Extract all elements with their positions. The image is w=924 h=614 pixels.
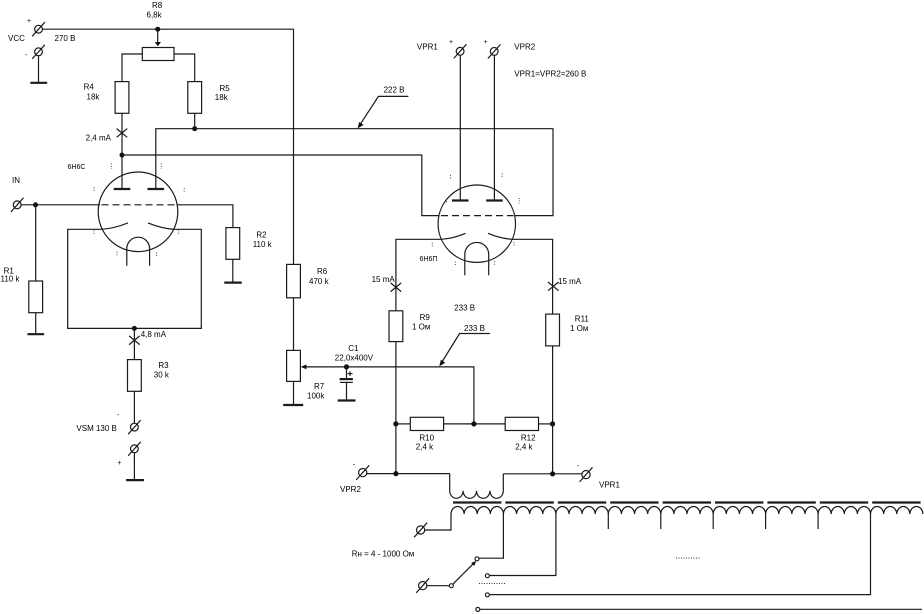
node primary left junction [393, 471, 398, 476]
wire VCC- to ground [38, 56, 40, 83]
tube V2 6N6P envelope [438, 185, 515, 262]
svg-text:R2: R2 [256, 230, 267, 239]
transformer T1 core [453, 501, 923, 503]
wire tap 2 to contact 2 [490, 514, 556, 576]
svg-text:VPR1: VPR1 [417, 43, 438, 52]
node VCC-R8 junction [155, 27, 160, 32]
resistor R3 [128, 360, 142, 392]
resistor R11 [546, 314, 560, 346]
switch contact 3 [485, 593, 489, 597]
svg-text:+: + [484, 39, 488, 46]
svg-text:R10: R10 [419, 434, 434, 443]
svg-text:1 Ом: 1 Ом [570, 324, 588, 333]
VCC - terminal [32, 45, 45, 59]
svg-text:110 k: 110 k [253, 240, 273, 249]
svg-text:270 В: 270 В [55, 34, 76, 43]
wire left column to primary [395, 424, 397, 474]
resistor R4 [115, 82, 129, 114]
tube V2 cathode a [441, 233, 465, 239]
node plate V1a junction [120, 153, 125, 158]
resistor R1 [29, 281, 43, 313]
wire R7 wiper 233V net [304, 367, 474, 424]
switch contact 1 [475, 557, 479, 561]
svg-text:R4: R4 [84, 83, 95, 92]
svg-text:IN: IN [12, 176, 20, 185]
tube V1 6N6S envelope [98, 172, 178, 252]
wire secondary left end to output [425, 514, 451, 530]
svg-text:30 k: 30 k [154, 370, 170, 379]
svg-text:15 mA: 15 mA [558, 277, 582, 286]
tube V1 heater [127, 237, 150, 266]
wire R1 to ground [35, 313, 37, 334]
tube V1 grid dashes [102, 204, 177, 206]
VPR2 terminal [488, 44, 501, 58]
wire VCC+ rail to R6 [42, 29, 293, 264]
probe X 15 mA right [548, 282, 559, 291]
VPR2 output terminal [356, 465, 369, 480]
wire R4 to plate V1a [121, 113, 123, 189]
capacitor C1 [340, 367, 353, 400]
svg-text:2,4 k: 2,4 k [515, 442, 533, 451]
svg-text:VCC: VCC [8, 34, 25, 43]
svg-text:+: + [27, 18, 31, 25]
output terminal top [414, 523, 427, 538]
tube V2 grid dashes [441, 215, 514, 217]
tube V1 plate a [114, 188, 131, 190]
wire tap stub 4 [660, 514, 662, 529]
svg-text:R5: R5 [220, 84, 231, 93]
wire contact 4 line [480, 608, 922, 610]
wire tap stub 3 [607, 514, 609, 529]
svg-text:100k: 100k [307, 391, 325, 400]
wire tap stub 6 [765, 514, 767, 529]
tube V1 cathode a [102, 223, 129, 229]
svg-text:18k: 18k [87, 93, 101, 102]
node primary right junction [550, 471, 555, 476]
resistor R5 [188, 82, 202, 114]
VCC + terminal [32, 22, 45, 36]
wire R11 to R12 [552, 346, 554, 424]
wire right column to primary [552, 424, 554, 474]
probe X 4,8 mA [129, 336, 140, 345]
node R5 222V junction [192, 126, 197, 131]
V2 pin marks [432, 173, 519, 265]
VPR1 output terminal [580, 467, 593, 482]
tube V2 plate b [486, 199, 503, 201]
svg-text:+: + [449, 39, 453, 46]
wire R7 to ground [293, 381, 295, 404]
svg-text:R7: R7 [314, 382, 325, 391]
svg-text:233 В: 233 В [454, 303, 475, 312]
node C1 junction [344, 364, 349, 369]
svg-text:Rн = 4 - 1000 Ом: Rн = 4 - 1000 Ом [352, 550, 415, 559]
wire cathode V2a to R9 [396, 239, 441, 310]
svg-text:2,4 mA: 2,4 mA [86, 134, 112, 143]
probe X 15 mA left [391, 283, 402, 292]
wire VPR2 to primary left [367, 473, 450, 475]
resistor R8 [142, 48, 174, 61]
ellipsis switch contacts [479, 583, 505, 585]
resistor R2 [226, 228, 240, 260]
222 V leader arrow [358, 96, 409, 128]
wire R8 wiper arrow [155, 29, 161, 46]
ellipsis taps [676, 557, 701, 559]
wire grid V1 to R2 [177, 205, 233, 228]
tube V1 plate b [148, 188, 165, 190]
wire R8 left to R4 [122, 54, 142, 82]
svg-text:+: + [118, 460, 122, 467]
wire R9 to R10 [395, 342, 397, 424]
wire VSM to ground [133, 453, 135, 480]
wire terminal to switch arm [427, 585, 449, 587]
svg-text:R11: R11 [575, 315, 590, 324]
resistor R9 [389, 311, 403, 342]
svg-text:470 k: 470 k [309, 277, 330, 286]
wire R6 to R7 [293, 298, 295, 351]
node IN-R1 junction [33, 202, 38, 207]
node R9-R10 junction [393, 421, 398, 426]
wire R9 to R10 stub [396, 423, 410, 425]
IN terminal [11, 198, 24, 212]
ground R7 [283, 404, 303, 406]
svg-text:2,4 k: 2,4 k [416, 442, 434, 451]
svg-text:4,8 mA: 4,8 mA [141, 330, 167, 339]
wire VPR1 to plate V2a [459, 55, 461, 200]
wire R8 right to R5 [174, 54, 195, 82]
wire primary right to VPR1 [503, 473, 582, 475]
ground C1 [338, 399, 356, 401]
wire cathode V2b to R11 [512, 239, 553, 314]
wire VPR2 to plate V2b [493, 55, 495, 200]
wire R2 to ground [232, 259, 234, 282]
svg-text:VPR2: VPR2 [514, 43, 535, 52]
wire tap stub 7 [817, 514, 819, 529]
transformer T1 secondary winding [451, 507, 923, 514]
V1 pin marks [94, 164, 184, 257]
233 V leader arrow [439, 334, 490, 367]
tube V2 plate a [452, 199, 469, 201]
svg-text:R9: R9 [420, 313, 431, 322]
wire tap 8 to contact 3 [490, 514, 871, 595]
wire IN to grid V1 [21, 204, 100, 206]
svg-text:C1: C1 [348, 344, 359, 353]
ground VCC [30, 82, 47, 84]
resistor R6 [287, 264, 301, 297]
switch contact 2 [485, 574, 489, 578]
ground VSM [126, 479, 144, 481]
node cathode junction [132, 326, 137, 331]
svg-text:VPR2: VPR2 [340, 485, 361, 494]
svg-text:VSM 130 В: VSM 130 В [76, 424, 116, 433]
VSM + terminal [128, 442, 141, 456]
wire tap 1 to switch contact [479, 514, 503, 558]
svg-text:110 k: 110 k [1, 275, 21, 284]
switch arm SA1 [449, 561, 476, 588]
svg-text:6Н6П: 6Н6П [420, 256, 438, 263]
wire R12 to R11 stub [539, 423, 553, 425]
wire R1 top [35, 205, 37, 281]
wire plate V1b to grid V2b (222 V net) [156, 129, 553, 216]
output terminal bottom [416, 578, 429, 593]
potentiometer R7 [287, 350, 301, 381]
svg-text:15 mA: 15 mA [372, 275, 396, 284]
svg-text:6,8k: 6,8k [147, 11, 163, 20]
wire R5 bottom [194, 113, 196, 128]
C1 polarity + [348, 371, 353, 376]
switch contact 4 [476, 607, 480, 611]
svg-text:R6: R6 [317, 267, 328, 276]
svg-text:R8: R8 [152, 1, 163, 10]
wire tap stub 5 [712, 514, 714, 529]
node R11-R12 junction [550, 421, 555, 426]
wire cathode to R3 [133, 328, 135, 359]
svg-text:VPR1: VPR1 [599, 481, 620, 490]
resistor R12 [505, 417, 538, 430]
resistor R10 [410, 417, 443, 430]
svg-text:R12: R12 [521, 434, 536, 443]
svg-text:R3: R3 [158, 361, 169, 370]
tube V2 cathode b [488, 233, 512, 239]
VSM - terminal [128, 420, 141, 434]
tube V2 heater [465, 242, 489, 275]
tube V1 cathode b [148, 223, 175, 229]
wire R3 to VSM [133, 391, 135, 423]
svg-text:233 В: 233 В [464, 324, 485, 333]
svg-text:1 Ом: 1 Ом [412, 323, 430, 332]
svg-text:22,0x400V: 22,0x400V [335, 354, 374, 363]
wire cathode loop V1 [68, 229, 202, 328]
wire plate V1a to grid V2a [122, 155, 440, 216]
ground R2 [224, 282, 242, 284]
R7 wiper arrowhead [301, 365, 307, 370]
ground R1 [27, 333, 44, 335]
svg-text:18k: 18k [215, 93, 229, 102]
VPR1 terminal [454, 44, 467, 58]
svg-text:VPR1=VPR2=260 В: VPR1=VPR2=260 В [514, 70, 586, 79]
svg-text:6Н6С: 6Н6С [68, 164, 86, 171]
wire R10 to R12 [444, 423, 506, 425]
transformer T1 primary winding [450, 474, 504, 499]
probe X 2,4 mA [117, 129, 128, 138]
svg-text:222 В: 222 В [384, 85, 405, 94]
node mid 233V junction [471, 421, 476, 426]
